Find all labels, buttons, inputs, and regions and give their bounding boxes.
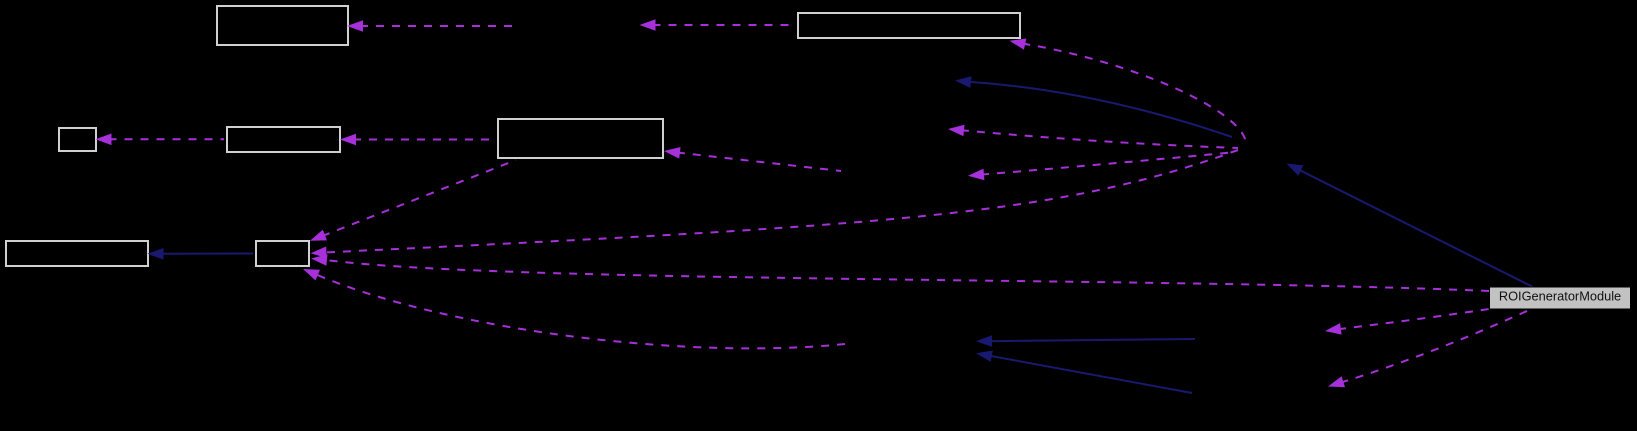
svg-text:ROIGeneratorModule: ROIGeneratorModule xyxy=(1499,288,1621,303)
